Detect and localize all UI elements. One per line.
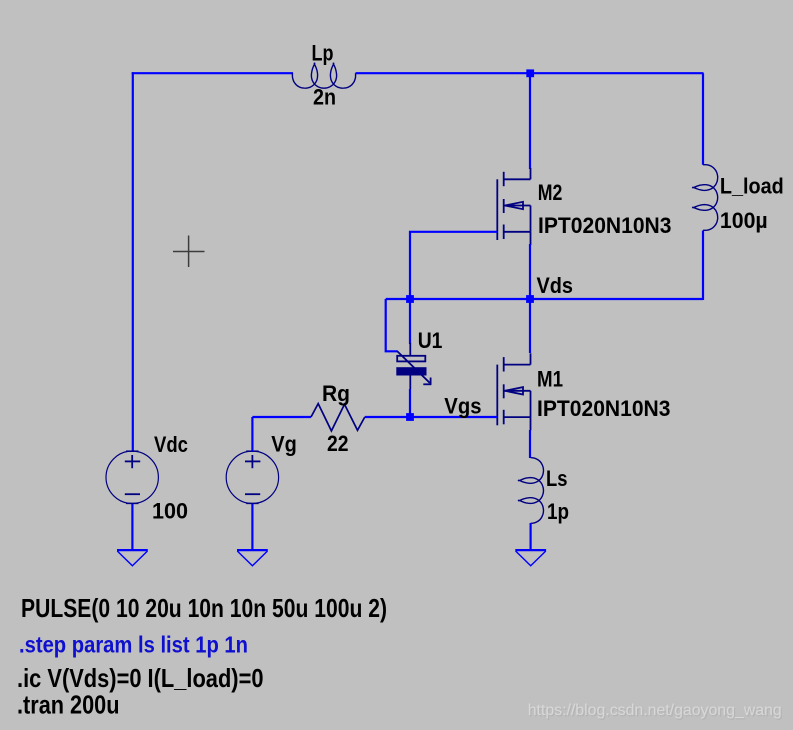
inductor L_load [693,165,718,231]
wire M1 drain lead [529,299,531,353]
svg-text:Vgs: Vgs [444,394,481,419]
node junction Vds-M1 [526,295,534,303]
ground Ls [515,549,546,551]
voltage source Vdc [106,451,158,503]
node junction Vgs [406,413,414,421]
svg-text:M1: M1 [537,367,563,392]
wire M2 gate [410,232,497,299]
wire L_load bottom lead [702,231,704,301]
ground Vg [237,549,268,551]
svg-text:Vdc: Vdc [154,432,188,457]
svg-text:.tran 200u: .tran 200u [17,690,120,720]
svg-text:100µ: 100µ [720,208,768,233]
wire Ls to ground [529,523,531,550]
svg-text:.step param ls list 1p 1n: .step param ls list 1p 1n [19,632,248,658]
svg-text:https://blog.csdn.net/gaoyong_: https://blog.csdn.net/gaoyong_wang [528,702,782,719]
wire M1 source lead [529,430,531,458]
svg-text:Lp: Lp [312,41,334,66]
svg-text:M2: M2 [538,180,563,205]
wire L_load top lead [702,73,704,165]
svg-text:.ic V(Vds)=0 I(L_load)=0: .ic V(Vds)=0 I(L_load)=0 [17,663,264,693]
node junction top [526,69,534,77]
svg-text:Vds: Vds [537,273,574,298]
transistor M2 [497,168,530,245]
svg-text:L_load: L_load [720,174,784,199]
inductor Lp [292,63,355,88]
wire Vds row [386,298,703,300]
wire Vdc to ground [131,504,133,550]
wire Vgs row left [252,416,311,418]
wire top rail left [132,72,293,74]
svg-text:Rg: Rg [322,381,350,406]
wire top rail right [356,72,704,74]
svg-text:Vg: Vg [271,432,297,457]
wire Vg top lead [251,417,253,452]
svg-text:PULSE(0 10 20u 10n 10n 50u 100: PULSE(0 10 20u 10n 10n 50u 100u 2) [21,593,387,623]
capacitor U1 [397,343,431,389]
transistor M1 [497,353,530,430]
wire M2 source to Vds [529,244,531,299]
svg-text:U1: U1 [418,328,443,353]
resistor Rg [311,404,365,431]
inductor Ls [519,458,544,524]
svg-text:IPT020N10N3: IPT020N10N3 [538,213,672,238]
wire Vg to ground [251,504,253,550]
voltage source Vg [226,451,278,503]
svg-text:IPT020N10N3: IPT020N10N3 [537,396,671,421]
wire U1 left branch [386,299,398,351]
cursor crosshair [173,236,205,268]
svg-text:Ls: Ls [546,466,568,491]
wire U1 bottom lead [409,389,411,417]
wire Vgs row right [365,416,498,418]
wire left rail [132,72,134,451]
svg-text:22: 22 [327,431,349,456]
svg-text:2n: 2n [313,85,336,110]
svg-text:1p: 1p [547,499,569,524]
ground Vdc [117,549,148,551]
svg-text:100: 100 [152,499,188,524]
node junction Vds-U1 [406,295,414,303]
wire M2 drain lead [529,73,531,169]
wire U1 top lead [409,299,411,344]
